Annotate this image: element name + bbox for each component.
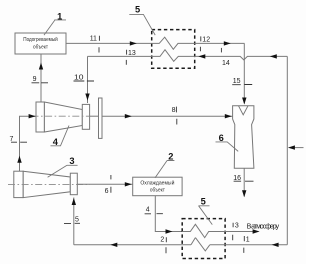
label 15 [232,78,252,85]
svg-text:объект: объект [150,188,165,194]
wire flow 4 (box 2 -> bottom exchanger) [155,196,182,232]
arrow flow 10 [85,94,89,101]
svg-text:4: 4 [53,137,59,147]
label 2 (flow) [160,236,166,253]
compressor 3 body [14,171,78,197]
wire flow 3 (bottom exchanger top line -> atmosphere) [182,224,258,237]
wire flow 6 (compressor 3 -> box 2) [77,183,132,185]
label 7 [10,136,28,143]
arrow flow 11 [130,41,137,45]
arrow flow 15 [242,98,246,105]
arrow flow 6 [125,182,132,186]
arrow flow 7 vertical [17,156,21,163]
label 3 (flow) [233,222,239,240]
wire flow 1-2 (right bus -> bottom exchanger -> compressor 3 riser) [74,238,287,251]
svg-text:6: 6 [105,188,109,195]
wire flow 13-14 (corner -> exchanger bottom line -> right bus) [88,50,288,62]
arrow flow 3 [253,229,260,233]
wire flow 8 (turbine 4 -> vortex tube 6) [102,115,233,117]
svg-text:В атмосферу: В атмосферу [247,223,280,230]
svg-text:15: 15 [233,78,241,85]
wire flow 7 (compressor 3 -> turbine 4 inlet) [20,116,37,171]
label 10 [74,74,95,81]
label 14 [221,48,229,67]
vortex tube 6 body [233,106,254,168]
box 1: heated object (Подогреваемый объект) [15,33,66,54]
label 12 [200,36,210,51]
label 2 (component 2 callout) [155,151,174,178]
arrow flow 14 (into exchanger) [198,54,205,58]
svg-text:12: 12 [202,37,210,44]
arrow flow 14 (mid right) [270,54,277,58]
svg-text:1: 1 [246,237,250,244]
arrow flow 16 [242,190,246,197]
label 4 (flow) [145,207,163,214]
svg-text:3: 3 [69,156,74,166]
svg-text:14: 14 [222,60,230,67]
wire flow 15 (corner down to vortex tube, with crossing hop) [243,43,245,103]
arrow flow 8 into tube [225,114,232,118]
svg-text:2: 2 [160,236,164,243]
svg-text:13: 13 [128,50,136,57]
heat exchanger 5 (bottom, dashed box) [182,219,225,259]
arrow flow 12 [224,41,231,45]
label 4 (component 4 callout) [51,126,70,147]
svg-text:2: 2 [168,151,173,161]
svg-text:6: 6 [219,133,224,143]
turbine 4 body [36,98,102,138]
label 9 [32,76,49,83]
compressor 3 centerline [8,183,90,185]
label 16 [233,175,253,182]
heat exchanger 5 (top, dashed box) [152,30,195,69]
svg-text:5: 5 [201,197,206,207]
wire flow 11-12 (box1 -> exchanger top line -> corner) [66,37,245,49]
label 3 (component 3 callout) [48,156,78,177]
inlet stub wire [290,147,304,149]
label 13 [126,50,136,65]
arrow flow 7 horizontal [29,114,36,118]
arrow flow 9 [39,63,43,70]
svg-text:Охлаждаемый: Охлаждаемый [140,180,174,187]
arrow flow 5 [72,198,76,205]
label 5 (top exchanger callout) [129,4,155,35]
label 6 (component 6 callout) [216,133,239,152]
wire flow 5 (bottom line -> compressor 3 inlet) [73,198,75,245]
svg-text:объект: объект [33,45,48,51]
svg-text:5: 5 [135,4,140,14]
svg-text:8: 8 [172,107,176,114]
svg-text:11: 11 [90,36,97,43]
label 1 (flow) [244,236,250,253]
label 11 [90,36,100,53]
right bus wire (inlet manifold) [286,56,288,244]
arrow flow 1 [272,243,279,247]
wire flow 16 (vortex tube cold outlet down) [243,168,245,196]
label 5 (bottom exchanger callout) [198,197,212,225]
label 5 (flow) [64,217,80,224]
label 8 [172,107,177,125]
arrow flow 4 [166,229,173,233]
svg-text:9: 9 [33,76,37,83]
box 2: cooled object (Охлаждаемый объект) [133,177,182,196]
label 6 (flow) [105,175,111,195]
turbine 4 centerline [32,115,90,117]
arrow flow 2 [110,243,117,247]
label 1 (component 1 callout) [44,11,66,35]
svg-text:4: 4 [146,207,150,214]
wire flow 9 (compressor 4 -> box 1) [40,54,42,102]
svg-text:5: 5 [75,217,79,224]
arrow inlet [288,145,295,149]
svg-text:10: 10 [74,74,84,81]
wire flow 10 (line 13 corner down into turbine 4) [87,56,89,103]
svg-text:Подогреваемый: Подогреваемый [23,36,58,43]
arrow flow 8 mid [125,114,132,118]
svg-text:3: 3 [235,222,239,229]
